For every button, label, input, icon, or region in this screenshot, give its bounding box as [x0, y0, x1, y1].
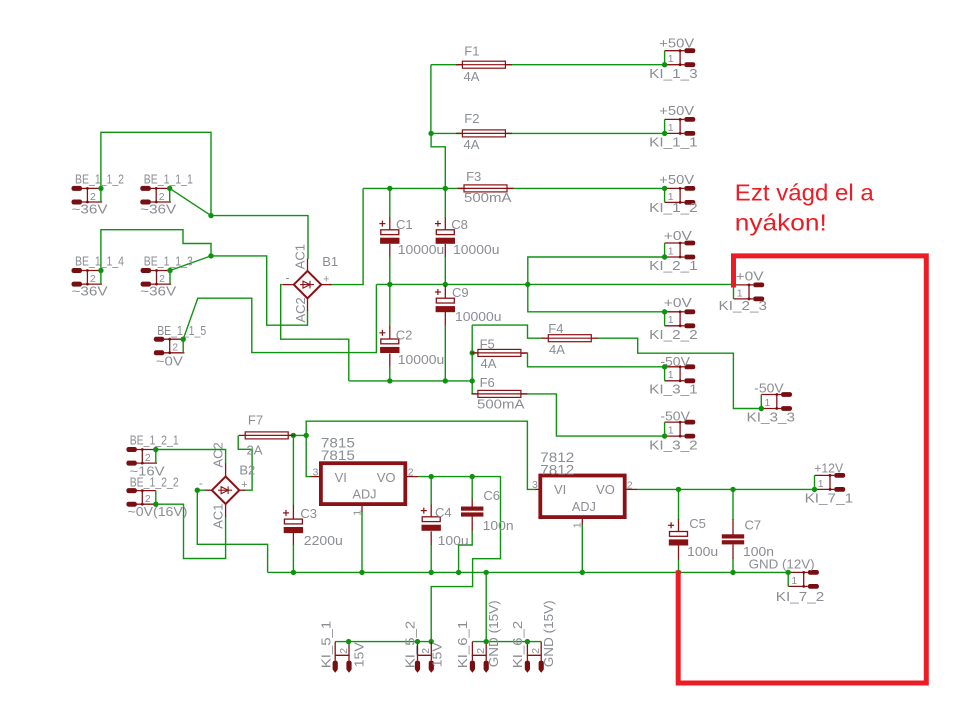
pin stub B2 + — [239, 489, 245, 491]
pin stub B2 AC2 — [225, 464, 227, 477]
svg-text:C7: C7 — [745, 518, 762, 533]
svg-text:1: 1 — [765, 397, 771, 409]
svg-text:+: + — [241, 479, 247, 491]
svg-text:C5: C5 — [689, 516, 706, 531]
connector BE_1_2_2 symbol — [126, 488, 157, 507]
connector KI_1_3 symbol — [665, 48, 696, 67]
svg-text:KI_6_2: KI_6_2 — [510, 621, 525, 669]
wire C7 bottom lead — [732, 558, 734, 572]
node ground rail / C3 — [291, 570, 296, 575]
svg-text:GND (15V): GND (15V) — [486, 600, 501, 667]
svg-text:F5: F5 — [480, 337, 495, 352]
svg-text:2: 2 — [627, 479, 633, 491]
connector KI_2_3 symbol — [734, 283, 765, 302]
capacitor C1 polarity + — [379, 221, 385, 227]
svg-text:1: 1 — [668, 122, 674, 134]
wire C3 top lead from F7 node — [292, 435, 294, 505]
wire BE_1_2_2 to B2 AC1 pin — [156, 504, 226, 558]
svg-text:+12V: +12V — [814, 461, 843, 476]
wire 0V rail — [376, 283, 733, 285]
svg-text:+0V: +0V — [664, 228, 692, 243]
svg-text:KI_3_1: KI_3_1 — [649, 382, 698, 397]
connector KI_7_2 symbol — [788, 570, 819, 589]
wire C3 bottom lead — [292, 544, 294, 572]
connector BE_1_1_2 symbol — [72, 186, 103, 205]
svg-text:1: 1 — [572, 522, 584, 528]
node KI_2_3 pin connection — [731, 282, 736, 287]
wire KI_2_2 supply stub (left box edge) — [664, 312, 666, 326]
svg-text:2: 2 — [172, 342, 178, 354]
node KI_1_2 pin connection — [662, 186, 667, 191]
svg-text:C8: C8 — [451, 217, 468, 232]
node KI_7_2 pin connection — [786, 570, 791, 575]
voltage regulator 7815(U1) body — [321, 463, 405, 504]
node KI_2_1 pin connection — [662, 254, 667, 259]
svg-text:-50V: -50V — [660, 408, 690, 423]
wire 0V rail to BE_1_1_5 (centre tap) — [183, 284, 376, 352]
capacitor C2 plates — [380, 339, 399, 353]
capacitor C7 plates — [722, 534, 744, 544]
wire KI_3_3 supply stub (left box edge) — [760, 395, 762, 409]
svg-text:500mA: 500mA — [477, 396, 525, 411]
node KI_3_1 pin connection — [662, 364, 667, 369]
wire +50V rail (B1+ to KI_1_2 through F3) — [363, 187, 664, 189]
capacitor C5 polarity + — [668, 522, 674, 528]
svg-text:ADJ: ADJ — [572, 499, 596, 514]
svg-text:~36V: ~36V — [140, 284, 176, 299]
wire BE_1_2_1 pin short (right box edge) — [155, 450, 157, 464]
capacitor C1 plates — [380, 230, 399, 244]
pin stub B2 AC1 — [225, 504, 227, 517]
svg-text:15V: 15V — [352, 642, 367, 667]
svg-text:C9: C9 — [452, 285, 469, 300]
svg-text:+50V: +50V — [659, 36, 694, 51]
pin stub 7812 ADJ — [581, 517, 583, 525]
svg-text:10000u: 10000u — [455, 309, 502, 324]
svg-text:VO: VO — [377, 470, 396, 485]
pin stub B1 - — [282, 284, 294, 286]
svg-text:AC1: AC1 — [293, 244, 308, 269]
wire C1 bottom lead — [389, 256, 391, 284]
pin stub 7815 ADJ — [361, 504, 363, 511]
svg-text:Ezt vágd el a: Ezt vágd el a — [735, 179, 875, 205]
svg-text:KI_1_2: KI_1_2 — [649, 200, 698, 215]
svg-text:4A: 4A — [481, 356, 497, 371]
capacitor C8 polarity + — [435, 221, 441, 227]
capacitor C6 plates — [461, 507, 483, 517]
connector KI_5_1 symbol — [333, 642, 352, 673]
wire ground rail to KI_6 connectors — [485, 572, 487, 641]
wire F2 feed jog down to +50V rail — [431, 133, 445, 188]
svg-text:KI_5_2: KI_5_2 — [403, 621, 418, 669]
svg-text:500mA: 500mA — [464, 190, 512, 205]
node ground rail / KI_6 feed — [484, 570, 489, 575]
node KI_5_1 pin connection — [346, 639, 351, 644]
wire KI_1_2 supply stub (left box edge) — [664, 188, 666, 202]
connector BE_1_1_3 symbol — [141, 268, 172, 287]
svg-text:3: 3 — [313, 467, 319, 479]
wire 0V to KI_2_2 — [528, 284, 665, 311]
node BE_1_1_1 pin connection — [167, 186, 172, 191]
svg-text:2200u: 2200u — [304, 533, 343, 548]
node KI_6_1 pin connection — [484, 639, 489, 644]
voltage regulator 7812(U2) body — [540, 476, 624, 518]
wire C5 top lead — [678, 489, 680, 519]
svg-text:F1: F1 — [464, 44, 479, 59]
bridge rectifier B1 body — [294, 271, 321, 298]
connector KI_6_2 symbol — [525, 642, 544, 673]
node KI_3_2 pin connection — [662, 433, 667, 438]
wire KI_3_1 supply stub (left box edge) — [664, 367, 666, 381]
wire C5 bottom lead — [678, 559, 680, 572]
svg-text:F7: F7 — [248, 412, 263, 427]
wire BE_1_1_3 pin short (right box edge) — [169, 271, 171, 285]
svg-text:100n: 100n — [483, 518, 514, 533]
node +50V rail / C1 — [387, 186, 392, 191]
svg-text:2: 2 — [145, 493, 151, 505]
svg-text:C4: C4 — [435, 505, 452, 520]
wire B1 + output up to +50V rail — [329, 188, 363, 284]
node KI_3_3 pin connection — [759, 406, 764, 411]
pin stub 7815 VI — [311, 476, 322, 478]
wire BE_1_1_4 to AC2 junction — [101, 230, 211, 271]
svg-text:-: - — [286, 271, 290, 285]
capacitor C2 polarity + — [379, 330, 385, 336]
node F5 input junction — [470, 350, 475, 355]
node KI_1_1 pin connection — [662, 131, 667, 136]
svg-text:4A: 4A — [464, 137, 480, 152]
wire F4/F5/F6 common -50V vertical — [471, 325, 473, 394]
wire BE_1_1_1 pin short (right box edge) — [169, 188, 171, 202]
svg-text:3: 3 — [532, 479, 538, 491]
lead C4 stubs — [430, 505, 432, 545]
svg-text:F3: F3 — [466, 169, 481, 184]
svg-text:~36V: ~36V — [72, 202, 108, 217]
svg-text:BE_1_1_3: BE_1_1_3 — [144, 253, 193, 268]
connector BE_1_1_5 symbol — [154, 337, 185, 356]
svg-text:KI_1_1: KI_1_1 — [649, 135, 698, 150]
pin stub 7815 VO — [405, 476, 418, 478]
wire KI_2_3 supply stub (left box edge) — [733, 285, 735, 299]
capacitor C4 polarity + — [421, 508, 427, 514]
svg-text:2: 2 — [408, 467, 414, 479]
capacitor C9 polarity + — [435, 289, 441, 295]
annotation red cut path — [678, 256, 926, 683]
node +50V rail / C8 / F2 feed — [443, 186, 448, 191]
lead C3 stubs — [292, 505, 294, 545]
svg-text:KI_6_1: KI_6_1 — [455, 621, 470, 669]
connector KI_7_1 symbol — [815, 473, 846, 492]
capacitor C3 polarity + — [283, 510, 289, 516]
connector KI_2_1 symbol — [665, 241, 696, 260]
svg-text:1: 1 — [668, 369, 674, 381]
node F7 output / regulator feed — [304, 433, 309, 438]
pin stub B1 AC2 — [307, 298, 309, 311]
node KI_5 feed junction — [429, 639, 434, 644]
svg-text:BE_1_2_2: BE_1_2_2 — [130, 474, 179, 489]
svg-text:KI_2_3: KI_2_3 — [719, 298, 768, 313]
wire B2 - output to ground rail — [197, 490, 267, 572]
svg-text:ADJ: ADJ — [353, 487, 377, 502]
svg-text:F6: F6 — [480, 375, 495, 390]
wire ground rail — [268, 571, 789, 573]
pin stub B1 + — [321, 284, 331, 286]
svg-text:+50V: +50V — [659, 103, 694, 118]
svg-text:+0V: +0V — [736, 269, 764, 284]
wire 7812 VO output (12V net) — [638, 488, 815, 490]
svg-text:100u: 100u — [687, 544, 718, 559]
svg-text:AC1: AC1 — [211, 504, 226, 529]
svg-text:2A: 2A — [247, 443, 263, 458]
wire BE_1_1_2 pin short (right box edge) — [100, 188, 102, 202]
wire F4 output to KI_3_3 — [597, 338, 762, 408]
wire C4 top lead — [430, 477, 432, 505]
svg-text:~0V: ~0V — [156, 354, 183, 369]
fuse F1 body — [456, 61, 512, 68]
svg-text:VI: VI — [335, 470, 347, 485]
svg-text:B2: B2 — [239, 463, 255, 478]
wire BE_1_1_5 pin short (right box edge) — [182, 339, 184, 353]
capacitor C3 plates — [284, 519, 303, 533]
svg-text:1: 1 — [668, 53, 674, 65]
svg-text:VI: VI — [554, 482, 566, 497]
node KI_7_1 pin connection — [812, 487, 817, 492]
svg-text:BE_1_1_4: BE_1_1_4 — [75, 253, 124, 268]
svg-text:KI_7_1: KI_7_1 — [805, 490, 854, 505]
wire F2 input row — [431, 132, 664, 134]
node KI_6_2 pin connection — [525, 639, 530, 644]
svg-text:10000u: 10000u — [398, 242, 445, 257]
wire KI_1_3 supply stub (left box edge) — [664, 51, 666, 65]
svg-text:F4: F4 — [548, 321, 563, 336]
node KI_1_3 pin connection — [662, 62, 667, 67]
pin stub 7812 VI — [535, 488, 540, 490]
svg-text:KI_3_3: KI_3_3 — [747, 410, 796, 425]
svg-text:1: 1 — [791, 575, 797, 587]
capacitor C9 plates — [436, 298, 455, 312]
node ground rail / C4 — [429, 570, 434, 575]
wire F1 input row (net ~36V-a to fuse F1) — [431, 64, 665, 66]
svg-text:nyákon!: nyákon! — [735, 209, 827, 235]
svg-text:7815: 7815 — [321, 447, 355, 463]
fuse F2 body — [456, 130, 512, 137]
connector BE_1_1_1 symbol — [140, 186, 171, 205]
svg-text:4A: 4A — [464, 69, 480, 84]
wire AC2 junction to B1 AC2 pin — [211, 256, 308, 325]
connector KI_1_2 symbol — [665, 186, 696, 205]
svg-text:KI_3_2: KI_3_2 — [649, 438, 698, 453]
node -50V rail / C2 / B1- — [387, 378, 392, 383]
wire C7 top lead — [732, 489, 734, 520]
node 12V / C7 — [730, 487, 735, 492]
node 12V / C5 — [676, 487, 681, 492]
svg-text:2: 2 — [338, 648, 350, 654]
wire F7 output node — [287, 434, 306, 436]
svg-text:AC2: AC2 — [211, 442, 226, 467]
svg-text:KI_1_3: KI_1_3 — [649, 66, 698, 81]
pin stub B2 - — [205, 489, 212, 491]
wire C1 top lead — [389, 188, 391, 218]
wire BE_1_1_2 to AC1 junction — [101, 132, 211, 215]
fuse F4 body — [542, 335, 598, 342]
wire C2 bottom lead — [389, 366, 391, 381]
wire BE_1_2_2 pin short (right box edge) — [155, 491, 157, 505]
bridge rectifier B2 body — [212, 477, 239, 504]
svg-text:GND (12V): GND (12V) — [749, 557, 815, 572]
wire AC1 junction to B1 AC1 pin — [211, 216, 308, 259]
connector KI_2_2 symbol — [665, 309, 696, 328]
node 0V rail / KI_2 branch — [525, 282, 530, 287]
lead C7 stubs — [732, 519, 734, 559]
svg-text:+: + — [323, 274, 329, 286]
connector KI_1_1 symbol — [665, 117, 696, 136]
wire B2 + output to fuse F7 — [238, 435, 252, 490]
connector KI_5_2 symbol — [415, 642, 434, 673]
wire KI_3_2 supply stub (left box edge) — [664, 422, 666, 436]
wire 0V to KI_2_1 — [528, 257, 665, 284]
node 15V / C4 — [429, 474, 434, 479]
svg-text:KI_7_2: KI_7_2 — [776, 589, 825, 604]
capacitor C4 plates — [422, 517, 441, 531]
node BE_1_1_2 pin connection — [98, 186, 103, 191]
svg-text:BE_1_2_1: BE_1_2_1 — [130, 432, 179, 447]
node ground rail / 7812 ADJ — [580, 570, 585, 575]
connector KI_3_1 symbol — [665, 364, 696, 383]
node KI_5_2 pin connection — [415, 639, 420, 644]
node ground rail / 7815 ADJ — [359, 570, 364, 575]
svg-text:~36V: ~36V — [72, 284, 108, 299]
svg-text:4A: 4A — [549, 342, 565, 357]
svg-text:F2: F2 — [464, 111, 479, 126]
node BE_1_1 AC2 junction — [208, 253, 213, 258]
svg-text:C1: C1 — [396, 217, 413, 232]
fuse F5 body — [471, 349, 527, 356]
node B2 minus junction — [195, 488, 200, 493]
wire KI_1_1 supply stub (left box edge) — [664, 119, 666, 133]
wire BE_1_1_3 diagonal to AC2 junction — [170, 256, 211, 271]
svg-text:~36V: ~36V — [140, 202, 176, 217]
node BE_1_1_3 pin connection — [167, 268, 172, 273]
svg-text:100u: 100u — [438, 533, 469, 548]
node F2 feed junction — [428, 131, 433, 136]
svg-text:C3: C3 — [300, 506, 317, 521]
connector KI_3_3 symbol — [761, 392, 792, 411]
wire C8 bottom lead — [444, 256, 446, 284]
svg-text:1: 1 — [818, 478, 824, 490]
wire BE_1_1_1 diagonal to AC1 junction — [170, 188, 211, 215]
wire C6 bottom lead to ground rail — [459, 530, 473, 573]
wire C6 top lead — [471, 477, 473, 500]
lead C8 stubs — [444, 218, 446, 257]
node BE_1_2_2 pin connection — [153, 502, 158, 507]
node BE_1_1_4 pin connection — [98, 268, 103, 273]
svg-text:KI_2_2: KI_2_2 — [649, 327, 698, 342]
svg-text:10000u: 10000u — [453, 242, 500, 257]
svg-text:~0V(16V): ~0V(16V) — [128, 504, 188, 519]
node -50V rail / C9 — [443, 378, 448, 383]
capacitor C8 plates — [436, 230, 455, 244]
svg-text:-: - — [199, 476, 203, 490]
lead C9 stubs — [444, 286, 446, 326]
svg-text:BE_1_1_1: BE_1_1_1 — [144, 171, 193, 186]
connector BE_1_1_4 symbol — [72, 268, 103, 287]
node F7 output / C3 — [291, 433, 296, 438]
wire F5 output to KI_3_1 — [521, 353, 665, 367]
svg-text:1: 1 — [668, 425, 674, 437]
node ground rail / C7 — [730, 570, 735, 575]
svg-text:15V: 15V — [430, 642, 445, 667]
connector KI_3_2 symbol — [665, 420, 696, 439]
wire F5 input row — [472, 352, 478, 354]
wire B1 - output down to -50V rail — [281, 285, 349, 381]
node BE_1_1_5 pin connection — [181, 337, 186, 342]
svg-text:BE_1_1_2: BE_1_1_2 — [75, 171, 124, 186]
wire GND(15V) to KI_6_1/KI_6_2 — [472, 641, 541, 643]
wire -50V rail — [349, 380, 472, 382]
wire 7815 ADJ to ground rail — [361, 511, 363, 572]
wire F7 node to 7815 VI and 7812 VI — [306, 421, 536, 489]
lead C2 stubs — [389, 326, 391, 366]
lead C6 stubs — [471, 499, 473, 531]
wire C8 top lead — [444, 188, 446, 218]
svg-text:C6: C6 — [483, 488, 500, 503]
svg-text:GND (15V): GND (15V) — [541, 600, 556, 667]
wire 7815 VO output (15V net) — [418, 477, 500, 642]
pin stub B1 AC1 — [307, 259, 309, 272]
wire BE_1_1_4 pin short (right box edge) — [100, 271, 102, 285]
svg-text:-50V: -50V — [754, 381, 784, 396]
svg-text:VO: VO — [596, 482, 615, 497]
svg-text:KI_5_1: KI_5_1 — [318, 621, 333, 669]
wire C4 bottom lead — [430, 544, 432, 572]
wire F6 input row — [472, 393, 478, 395]
node ground rail / C5 — [676, 570, 681, 575]
wire BE_1_2_1 to B2 AC2 pin — [156, 450, 226, 465]
pin stub 7812 VO — [625, 488, 638, 490]
wire F1-F2 vertical feed — [430, 65, 432, 134]
svg-text:7812: 7812 — [540, 461, 574, 477]
svg-text:KI_2_1: KI_2_1 — [649, 258, 698, 273]
connector BE_1_2_1 symbol — [126, 447, 157, 466]
svg-text:B1: B1 — [322, 254, 338, 269]
svg-text:+50V: +50V — [659, 172, 694, 187]
node BE_1_1 AC1 junction — [208, 213, 213, 218]
capacitor C5 plates — [669, 532, 688, 546]
svg-text:BE_1_1_5: BE_1_1_5 — [157, 323, 206, 338]
node 15V / C6 — [470, 474, 475, 479]
wire 7812 ADJ to ground rail — [581, 524, 583, 572]
wire KI_7_1 supply stub (left box edge) — [814, 475, 816, 489]
wire C2 top lead — [389, 284, 391, 327]
wire KI_2_1 supply stub (left box edge) — [664, 243, 666, 257]
lead C1 stubs — [389, 218, 391, 257]
wire KI_7_2 supply stub (left box edge) — [787, 572, 789, 586]
svg-text:AC2: AC2 — [293, 297, 308, 322]
node -50V rail / fuse feed — [470, 378, 475, 383]
svg-text:10000u: 10000u — [398, 352, 445, 367]
node ground rail / C6 — [456, 570, 461, 575]
node BE_1_2_1 pin connection — [153, 447, 158, 452]
node 0V rail / C1-C2 — [387, 282, 392, 287]
connector KI_6_1 symbol — [470, 642, 489, 673]
wire C9 bottom lead — [444, 325, 446, 381]
svg-text:1: 1 — [668, 245, 674, 257]
fuse F7 body — [239, 432, 295, 439]
wire feed to fuse F4 — [472, 325, 543, 338]
lead C5 stubs — [678, 519, 680, 560]
fuse F6 body — [471, 390, 527, 397]
svg-text:1: 1 — [351, 510, 363, 516]
